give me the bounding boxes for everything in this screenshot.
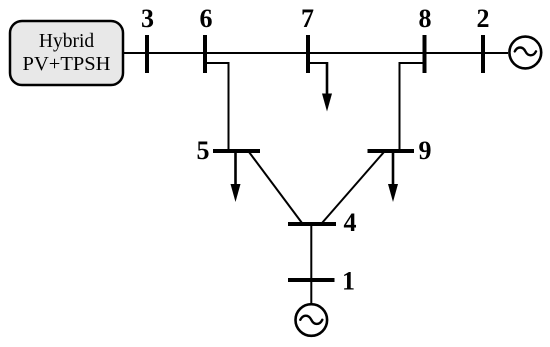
wire bus1 to generator G1 bbox=[310, 280, 312, 304]
bus 8 bar bbox=[423, 35, 427, 73]
load arrow at bus 7 bbox=[322, 62, 332, 112]
svg-text:Hybrid: Hybrid bbox=[39, 31, 94, 52]
svg-text:4: 4 bbox=[344, 208, 357, 237]
bus 6 bar bbox=[203, 35, 207, 73]
wire bus4 to bus1 bbox=[310, 224, 312, 280]
svg-text:1: 1 bbox=[342, 267, 355, 296]
svg-text:7: 7 bbox=[301, 4, 314, 33]
svg-text:5: 5 bbox=[197, 136, 210, 165]
bus 7 bar bbox=[306, 35, 310, 73]
wire diagonal bus5 to bus4 bbox=[249, 152, 302, 223]
load arrow at bus 9 bbox=[388, 151, 398, 202]
bus 1 bar bbox=[288, 278, 335, 282]
Hybrid PV+TPSH source block bbox=[10, 21, 123, 85]
bus 4 bar bbox=[288, 222, 336, 226]
load arrow at bus 5 bbox=[231, 151, 241, 202]
svg-text:2: 2 bbox=[477, 4, 490, 33]
wire main horizontal bus-tie line bbox=[124, 52, 508, 54]
svg-text:6: 6 bbox=[200, 4, 213, 33]
bus 9 bar bbox=[368, 149, 415, 153]
bus 2 bar bbox=[481, 35, 485, 73]
generator G2 at bus 2 bbox=[509, 37, 541, 69]
wire branch bus8 to node down bbox=[400, 63, 425, 151]
generator G1 at bus 1 bbox=[296, 304, 328, 336]
wire branch bus6 to node down bbox=[205, 63, 229, 151]
svg-text:3: 3 bbox=[141, 4, 154, 33]
wire branch bus7 load tap bbox=[308, 62, 327, 64]
svg-text:8: 8 bbox=[419, 4, 432, 33]
bus 3 bar bbox=[145, 35, 149, 73]
svg-text:PV+TPSH: PV+TPSH bbox=[23, 53, 111, 75]
svg-text:9: 9 bbox=[419, 136, 432, 165]
wire diagonal bus9 to bus4 bbox=[322, 152, 384, 223]
bus 5 bar bbox=[213, 149, 260, 153]
